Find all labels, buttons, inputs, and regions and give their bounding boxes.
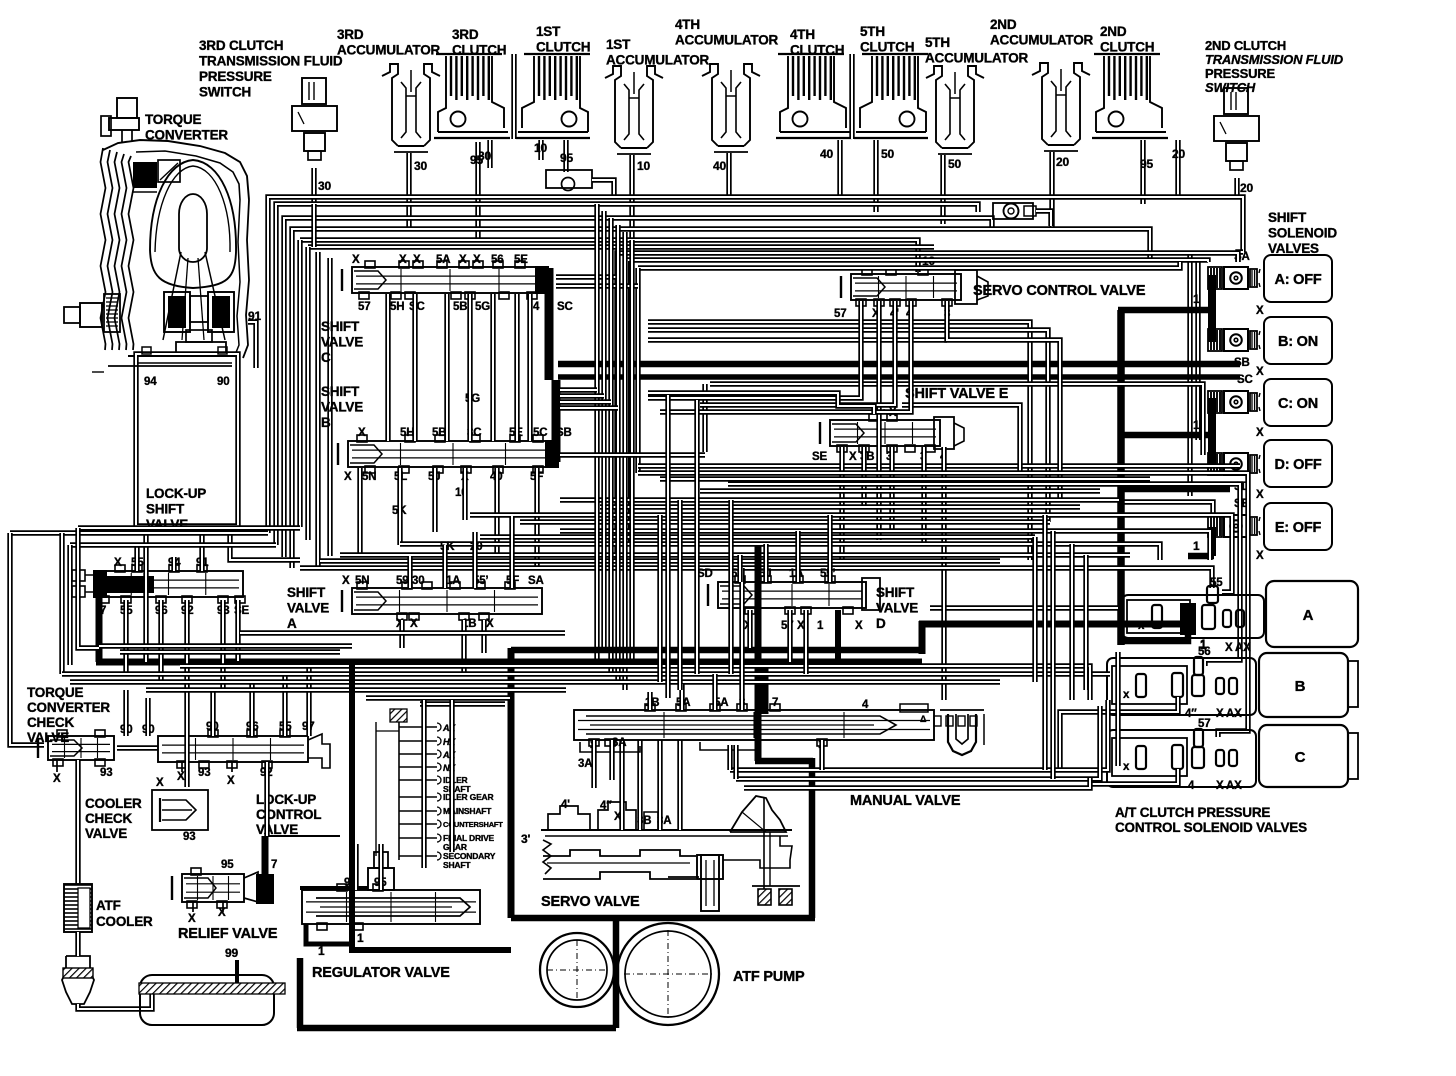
wire thick branch pack A bottom 1	[1121, 630, 1188, 641]
svg-text:1: 1	[1193, 292, 1200, 306]
manual valve right bits	[900, 704, 928, 712]
wire mid bus 1	[638, 473, 1248, 737]
lock-up shift valve box	[136, 354, 238, 526]
svg-text:SHAFT: SHAFT	[443, 860, 471, 870]
wire 3C elbow to shift valve E	[648, 393, 874, 414]
svg-text:C: ON: C: ON	[1278, 396, 1318, 412]
svg-text:56: 56	[1198, 646, 1210, 658]
svg-text:X: X	[410, 618, 418, 630]
svg-text:X: X	[342, 575, 350, 587]
wire left column 1	[10, 530, 268, 535]
svg-text:1: 1	[357, 931, 364, 945]
wire thick solenoid E segment	[1208, 527, 1216, 556]
svg-text:95: 95	[221, 859, 234, 871]
wire mid bus 4b	[520, 519, 1050, 524]
svg-text:57: 57	[358, 301, 370, 313]
svg-text:COOLER: COOLER	[96, 914, 153, 929]
svg-text:VALVE: VALVE	[321, 335, 363, 350]
svg-text:5TH: 5TH	[925, 35, 950, 50]
shift solenoid valve B symbol	[1208, 329, 1222, 351]
svg-text:57: 57	[834, 308, 846, 320]
shift solenoid valve D symbol	[1208, 453, 1222, 475]
svg-text:4': 4'	[561, 799, 570, 811]
wires shift valve A right section bottom drops	[399, 620, 404, 648]
wire mid bus 3b	[600, 504, 1080, 509]
A/T clutch pressure control solenoid valve pack C	[1107, 730, 1256, 787]
svg-text:A: A	[287, 616, 297, 631]
svg-text:VALVE: VALVE	[287, 601, 329, 616]
wire 20 from 2nd switch	[1234, 178, 1239, 197]
wire right bottom verticals	[1042, 515, 1047, 770]
svg-text:5N: 5N	[355, 575, 369, 587]
svg-text:X: X	[53, 773, 61, 785]
wire thick from shift valve A blob down	[96, 598, 103, 662]
servo valve right arm	[723, 836, 792, 868]
orifice check near 1st clutch	[546, 170, 592, 188]
svg-text:1: 1	[1193, 539, 1200, 553]
wire lower bus 3b	[180, 666, 1090, 700]
lock-up control valve	[158, 736, 308, 762]
svg-text:X: X	[1256, 550, 1264, 562]
wire lower right buses	[730, 700, 1108, 770]
wires lock-up control valve risers	[210, 690, 215, 736]
wire T between 3rd and 1st clutch	[511, 54, 516, 139]
svg-text:SWITCH: SWITCH	[199, 85, 251, 100]
wire thick solenoid C-D segment	[1208, 398, 1216, 466]
ATF strainer funnel	[62, 956, 94, 1004]
svg-text:X: X	[227, 775, 235, 787]
wire left column 3	[78, 525, 300, 530]
svg-text:B: B	[1295, 678, 1306, 695]
servo valve left spring	[543, 840, 551, 874]
wire mid bus 5	[560, 531, 1210, 560]
wire cooler drop	[75, 760, 80, 884]
svg-text:X: X	[849, 451, 857, 463]
wire TC check valve X stub	[56, 760, 58, 772]
wire thick shift valve B end	[552, 380, 561, 462]
svg-text:X: X	[1256, 366, 1264, 378]
wire frame 3	[638, 262, 1180, 268]
wire lower bus 0b	[120, 649, 340, 654]
svg-text:A: A	[1303, 607, 1314, 624]
wire from 3rd switch down to frame	[311, 204, 316, 247]
wire solenoid column left pipes	[1187, 253, 1192, 496]
wire right mid horizontals	[648, 322, 1030, 560]
manual valve lower lip	[580, 742, 640, 752]
wire lower bus 1	[62, 671, 1110, 676]
wire 50 of 5th clutch	[873, 140, 878, 212]
svg-text:59: 59	[396, 575, 408, 587]
svg-text:SHIFT: SHIFT	[287, 585, 326, 600]
svg-text:95: 95	[560, 151, 573, 165]
cooler check valve	[152, 790, 208, 830]
shift valve D	[718, 582, 866, 608]
torque converter check valve	[48, 736, 114, 760]
torque converter	[117, 98, 137, 118]
servo valve pedal	[730, 796, 786, 832]
svg-text:PRESSURE: PRESSURE	[1205, 66, 1275, 81]
wire from torque converter 91	[248, 322, 256, 368]
3rd accumulator	[382, 64, 398, 146]
wire pack C feed	[1090, 769, 1178, 784]
wire right mid horizontals 2	[648, 337, 947, 342]
servo valve pedal mast	[763, 797, 765, 889]
shift valve C	[352, 267, 548, 293]
svg-text:93: 93	[183, 831, 195, 843]
wire frame 2	[627, 260, 1208, 545]
svg-text:ATF PUMP: ATF PUMP	[733, 969, 805, 985]
svg-text:1: 1	[318, 944, 325, 958]
svg-text:1A: 1A	[446, 575, 460, 587]
wire left column 2	[70, 542, 276, 547]
svg-text:20: 20	[1240, 181, 1253, 195]
svg-text:RELIEF VALVE: RELIEF VALVE	[178, 926, 278, 942]
svg-text:CLUTCH: CLUTCH	[860, 40, 914, 55]
wires shift valve C to B verticals	[385, 294, 390, 441]
wire SE feed pipe	[1119, 502, 1213, 513]
svg-text:5H: 5H	[400, 427, 414, 439]
wire 50 of 5th accumulator	[940, 155, 945, 224]
wire relief valve X stubs	[192, 902, 194, 912]
wires servo control valve down ports	[648, 301, 861, 398]
wire funnel to pan	[78, 990, 152, 1009]
svg-text:VALVE: VALVE	[256, 822, 298, 837]
wire thick branch to manual valve 7	[762, 662, 769, 714]
svg-text:4: 4	[533, 301, 540, 313]
ATF pump large gear	[617, 923, 719, 1025]
torque converter base line	[108, 365, 232, 367]
ATF pump small gear	[540, 933, 614, 1007]
1st clutch	[524, 53, 590, 55]
svg-text:57: 57	[1198, 718, 1210, 730]
wire thick branch 1 to solenoid A/B	[1118, 307, 1214, 314]
shaft bracket lines	[398, 722, 400, 860]
svg-text:C: C	[1295, 749, 1306, 766]
wire valve C to frame connectors	[556, 274, 617, 279]
svg-text:SHIFT: SHIFT	[321, 319, 360, 334]
svg-text:A: OFF: A: OFF	[1274, 272, 1321, 288]
svg-text:3RD CLUTCH: 3RD CLUTCH	[199, 38, 283, 53]
wire TC check to lock-up control	[117, 745, 158, 750]
svg-text:ATF: ATF	[96, 898, 121, 913]
wire mid bus 5b	[480, 534, 1035, 539]
svg-text:1ST: 1ST	[606, 37, 631, 52]
svg-text:SOLENOID: SOLENOID	[1268, 226, 1337, 241]
4th accumulator	[702, 64, 718, 146]
svg-text:40: 40	[820, 147, 833, 161]
svg-text:X: X	[413, 254, 421, 266]
svg-text:3': 3'	[521, 832, 530, 846]
2nd clutch	[1094, 53, 1160, 55]
ATF cooler	[64, 884, 92, 932]
wire thick SC line	[558, 374, 1240, 380]
A/T solenoid box C	[1259, 725, 1348, 787]
svg-text:3A: 3A	[578, 758, 592, 770]
5th accumulator	[926, 66, 942, 148]
wire frame around servo control valve top	[617, 253, 1238, 560]
svg-text:VALVE: VALVE	[876, 601, 918, 616]
svg-text:D: D	[876, 616, 886, 631]
svg-text:56: 56	[491, 254, 503, 266]
svg-text:5B: 5B	[453, 301, 467, 313]
svg-text:4: 4	[862, 699, 869, 711]
svg-text:4TH: 4TH	[675, 17, 700, 32]
svg-text:X: X	[1256, 305, 1264, 317]
svg-text:40: 40	[713, 159, 726, 173]
svg-text:COOLER: COOLER	[85, 796, 142, 811]
shift valve A left end fittings	[72, 570, 85, 581]
wire thick servo box bottom	[511, 915, 815, 922]
wire under shift valve D	[930, 605, 1118, 610]
wire 90 risers	[123, 690, 128, 736]
svg-text:2ND CLUTCH: 2ND CLUTCH	[1205, 38, 1286, 53]
svg-text:5H: 5H	[390, 301, 404, 313]
svg-text:VALVE: VALVE	[85, 826, 127, 841]
svg-text:E: OFF: E: OFF	[1275, 520, 1322, 536]
svg-text:CLUTCH: CLUTCH	[452, 43, 506, 58]
svg-text:VALVE: VALVE	[321, 400, 363, 415]
svg-text:SERVO VALVE: SERVO VALVE	[541, 894, 640, 910]
wire mid bus 8	[300, 568, 1212, 588]
wire 95 of 1st clutch to orifice	[563, 140, 568, 172]
wire thick SB line	[558, 361, 1240, 368]
svg-text:D: OFF: D: OFF	[1274, 457, 1321, 473]
svg-text:SHIFT: SHIFT	[1268, 210, 1307, 225]
orifice check near 2nd accumulator	[993, 203, 1033, 219]
wire top bus 5 drop	[297, 240, 302, 527]
oil pan	[140, 975, 274, 1025]
wire mid bus 4	[470, 515, 1232, 592]
svg-text:95: 95	[1140, 157, 1153, 171]
svg-text:X AX: X AX	[1216, 708, 1242, 720]
svg-text:93: 93	[100, 767, 112, 779]
wire mid bus 2b	[700, 488, 1100, 493]
svg-text:X: X	[399, 254, 407, 266]
wire thick branch SD	[1118, 486, 1230, 493]
svg-text:CHECK: CHECK	[27, 715, 74, 730]
wire thick branch to solenoid E 1	[1188, 553, 1214, 560]
pack A thick blob	[1183, 604, 1196, 630]
wire pan stub 99	[235, 960, 239, 983]
svg-text:91: 91	[248, 309, 261, 323]
svg-text:Δ: Δ	[920, 714, 927, 724]
svg-text:4″: 4″	[600, 800, 612, 812]
wire lower bus 4 box top	[366, 695, 510, 700]
svg-text:CONVERTER: CONVERTER	[27, 700, 110, 715]
svg-text:ACCUMULATOR: ACCUMULATOR	[990, 33, 1093, 48]
wire top bus 3	[284, 218, 992, 557]
svg-text:30: 30	[412, 575, 424, 587]
wire mid bus 2	[728, 484, 1240, 666]
svg-text:2ND: 2ND	[990, 17, 1017, 32]
wire valve B right horizontals	[560, 452, 705, 457]
svg-text:10: 10	[637, 159, 650, 173]
wire 92 95 risers into regulator	[353, 844, 358, 890]
wire 10 of 1st accumulator	[629, 155, 634, 246]
svg-text:X: X	[358, 427, 366, 439]
wire top bus 5	[300, 240, 918, 272]
shift solenoid valve B box B: ON	[1264, 317, 1332, 364]
shift solenoid valve C box C: ON	[1264, 379, 1332, 426]
svg-text:20: 20	[1056, 155, 1069, 169]
wire 95 of 3rd clutch	[475, 142, 480, 240]
svg-text:X: X	[156, 777, 164, 789]
svg-text:VALVES: VALVES	[1268, 241, 1319, 256]
svg-text:3RD: 3RD	[452, 27, 479, 42]
svg-text:1: 1	[1193, 418, 1200, 432]
wires center verticals crossing mid buses	[665, 395, 670, 698]
wire lower bus 4b	[420, 701, 505, 706]
svg-text:X AX: X AX	[1225, 642, 1251, 654]
shift solenoid valve D box D: OFF	[1264, 440, 1332, 487]
wire inner frame verticals left of valve C	[315, 252, 320, 568]
svg-text:2ND: 2ND	[1100, 24, 1127, 39]
wire thick pack A blob	[1180, 603, 1196, 635]
wire 40 of 4th accumulator	[726, 153, 731, 197]
svg-text:REGULATOR VALVE: REGULATOR VALVE	[312, 965, 450, 981]
wire thick solenoid supply vertical 1	[1117, 310, 1125, 645]
svg-text:CLUTCH: CLUTCH	[790, 43, 844, 58]
svg-text:55: 55	[1210, 577, 1223, 589]
wire lower bus 2	[70, 679, 1000, 684]
wire 1 below manual valve	[819, 740, 824, 770]
svg-text:7: 7	[271, 859, 277, 871]
wire servo valve crossing verticals	[619, 740, 624, 830]
wires manual valve bottom area	[591, 740, 596, 788]
svg-text:x: x	[1123, 761, 1130, 773]
svg-text:3RD: 3RD	[337, 27, 364, 42]
svg-text:X: X	[114, 557, 122, 569]
wires shift valve D bottom	[747, 610, 752, 648]
wire V2 continuation to packs	[1115, 652, 1120, 766]
svg-text:x: x	[1138, 620, 1145, 632]
wire thick servo box left edge	[508, 648, 515, 918]
wire thick relief to lock-up control	[262, 836, 269, 874]
wire thick upper lower line	[511, 647, 925, 654]
relief valve thick blob	[256, 874, 274, 904]
relief valve	[182, 874, 244, 902]
svg-text:1ST: 1ST	[536, 24, 561, 39]
manual valve	[574, 710, 934, 740]
svg-text:A/T CLUTCH PRESSURE: A/T CLUTCH PRESSURE	[1115, 805, 1270, 820]
wire top bus 1	[268, 197, 1243, 533]
svg-text:20: 20	[1172, 147, 1185, 161]
wire 30 port of 3rd clutch	[487, 140, 492, 168]
servo valve lower channel	[543, 850, 696, 856]
wire pack B feed	[1060, 697, 1178, 770]
wires shift valve E down ports	[839, 447, 844, 560]
svg-text:TORQUE: TORQUE	[145, 112, 202, 127]
svg-text:SHIFT: SHIFT	[876, 585, 915, 600]
svg-text:95: 95	[470, 153, 483, 167]
svg-text:X AX: X AX	[1216, 780, 1242, 792]
regulator valve thick bottom details	[306, 924, 352, 944]
wire 30 from 3rd accumulator	[406, 153, 411, 229]
svg-text:50: 50	[881, 147, 894, 161]
svg-text:CLUTCH: CLUTCH	[1100, 40, 1154, 55]
wire mid bus 7b	[320, 558, 1000, 563]
wires shift valve D top feeds	[737, 555, 742, 582]
A/T clutch pressure control solenoid valve pack A	[1122, 595, 1264, 638]
wire thick main line lower	[96, 659, 922, 666]
svg-text:PRESSURE: PRESSURE	[199, 69, 272, 84]
shift solenoid valve E box E: OFF	[1264, 503, 1332, 550]
3rd clutch	[436, 53, 502, 55]
wires shift valve A right section port risers	[407, 556, 412, 588]
wire thick lower-left loop	[297, 958, 304, 1028]
svg-text:SHIFT: SHIFT	[321, 384, 360, 399]
wire thick servo box right edge	[809, 758, 816, 918]
2nd accumulator	[1032, 63, 1048, 145]
svg-text:50: 50	[948, 157, 961, 171]
svg-text:X: X	[177, 771, 185, 783]
svg-text:LOCK-UP: LOCK-UP	[146, 486, 206, 501]
wire 30 from 3rd switch	[311, 168, 316, 204]
svg-text:CHECK: CHECK	[85, 811, 132, 826]
5th clutch	[862, 53, 928, 55]
4th clutch	[778, 53, 844, 55]
wire center stack verticals	[594, 204, 599, 662]
svg-text:94: 94	[144, 376, 157, 388]
svg-text:SHIFT: SHIFT	[146, 502, 185, 517]
shift valve E	[830, 420, 940, 446]
wire thick sub box left edge	[349, 662, 355, 950]
svg-text:X: X	[188, 913, 196, 925]
svg-text:CONTROL SOLENOID VALVES: CONTROL SOLENOID VALVES	[1115, 820, 1307, 835]
svg-text:TRANSMISSION FLUID: TRANSMISSION FLUID	[1205, 52, 1344, 67]
svg-text:SERVO CONTROL VALVE: SERVO CONTROL VALVE	[973, 283, 1146, 299]
svg-text:X: X	[473, 254, 481, 266]
wire thick branch to solenoid C 1	[1118, 432, 1214, 439]
svg-text:4″: 4″	[1185, 708, 1197, 720]
svg-text:ACCUMULATOR: ACCUMULATOR	[337, 43, 440, 58]
shift valve B	[348, 441, 558, 467]
wire 20 of 2nd accumulator	[1049, 152, 1054, 229]
svg-text:30: 30	[414, 159, 427, 173]
shift solenoid valve A symbol	[1208, 267, 1222, 289]
svg-text:X: X	[1256, 489, 1264, 501]
svg-text:ACCUMULATOR: ACCUMULATOR	[675, 33, 778, 48]
svg-text:93: 93	[198, 767, 210, 779]
wire SA feed	[1238, 252, 1243, 262]
wire mid bus 7	[340, 552, 1130, 557]
wire thick riser to pack A	[919, 621, 926, 654]
svg-text:MANUAL VALVE: MANUAL VALVE	[850, 793, 961, 809]
A/T solenoid box A	[1266, 581, 1358, 647]
wire 95 of 2nd clutch	[1140, 140, 1145, 204]
wire T between 4th and 5th clutch	[849, 54, 854, 139]
regulator valve	[300, 886, 368, 890]
wire top bus 2	[276, 204, 978, 545]
svg-text:X: X	[352, 254, 360, 266]
servo valve plunger	[697, 855, 723, 879]
svg-text:B: ON: B: ON	[1278, 334, 1318, 350]
svg-text:7: 7	[772, 697, 778, 709]
wire 40 of 4th clutch	[837, 140, 842, 197]
svg-text:90: 90	[217, 376, 229, 388]
svg-text:5N: 5N	[362, 471, 376, 483]
wire top bus 4	[292, 229, 1150, 568]
svg-text:SHIFT VALVE E: SHIFT VALVE E	[905, 386, 1009, 402]
svg-text:CLUTCH: CLUTCH	[536, 40, 590, 55]
manual valve U tube	[948, 714, 976, 755]
servo control valve	[851, 274, 961, 300]
svg-text:99: 99	[225, 946, 238, 960]
svg-text:TRANSMISSION FLUID: TRANSMISSION FLUID	[199, 54, 343, 69]
svg-text:30: 30	[318, 179, 331, 193]
servo valve upper bar	[541, 829, 792, 831]
svg-text:X: X	[486, 618, 494, 630]
